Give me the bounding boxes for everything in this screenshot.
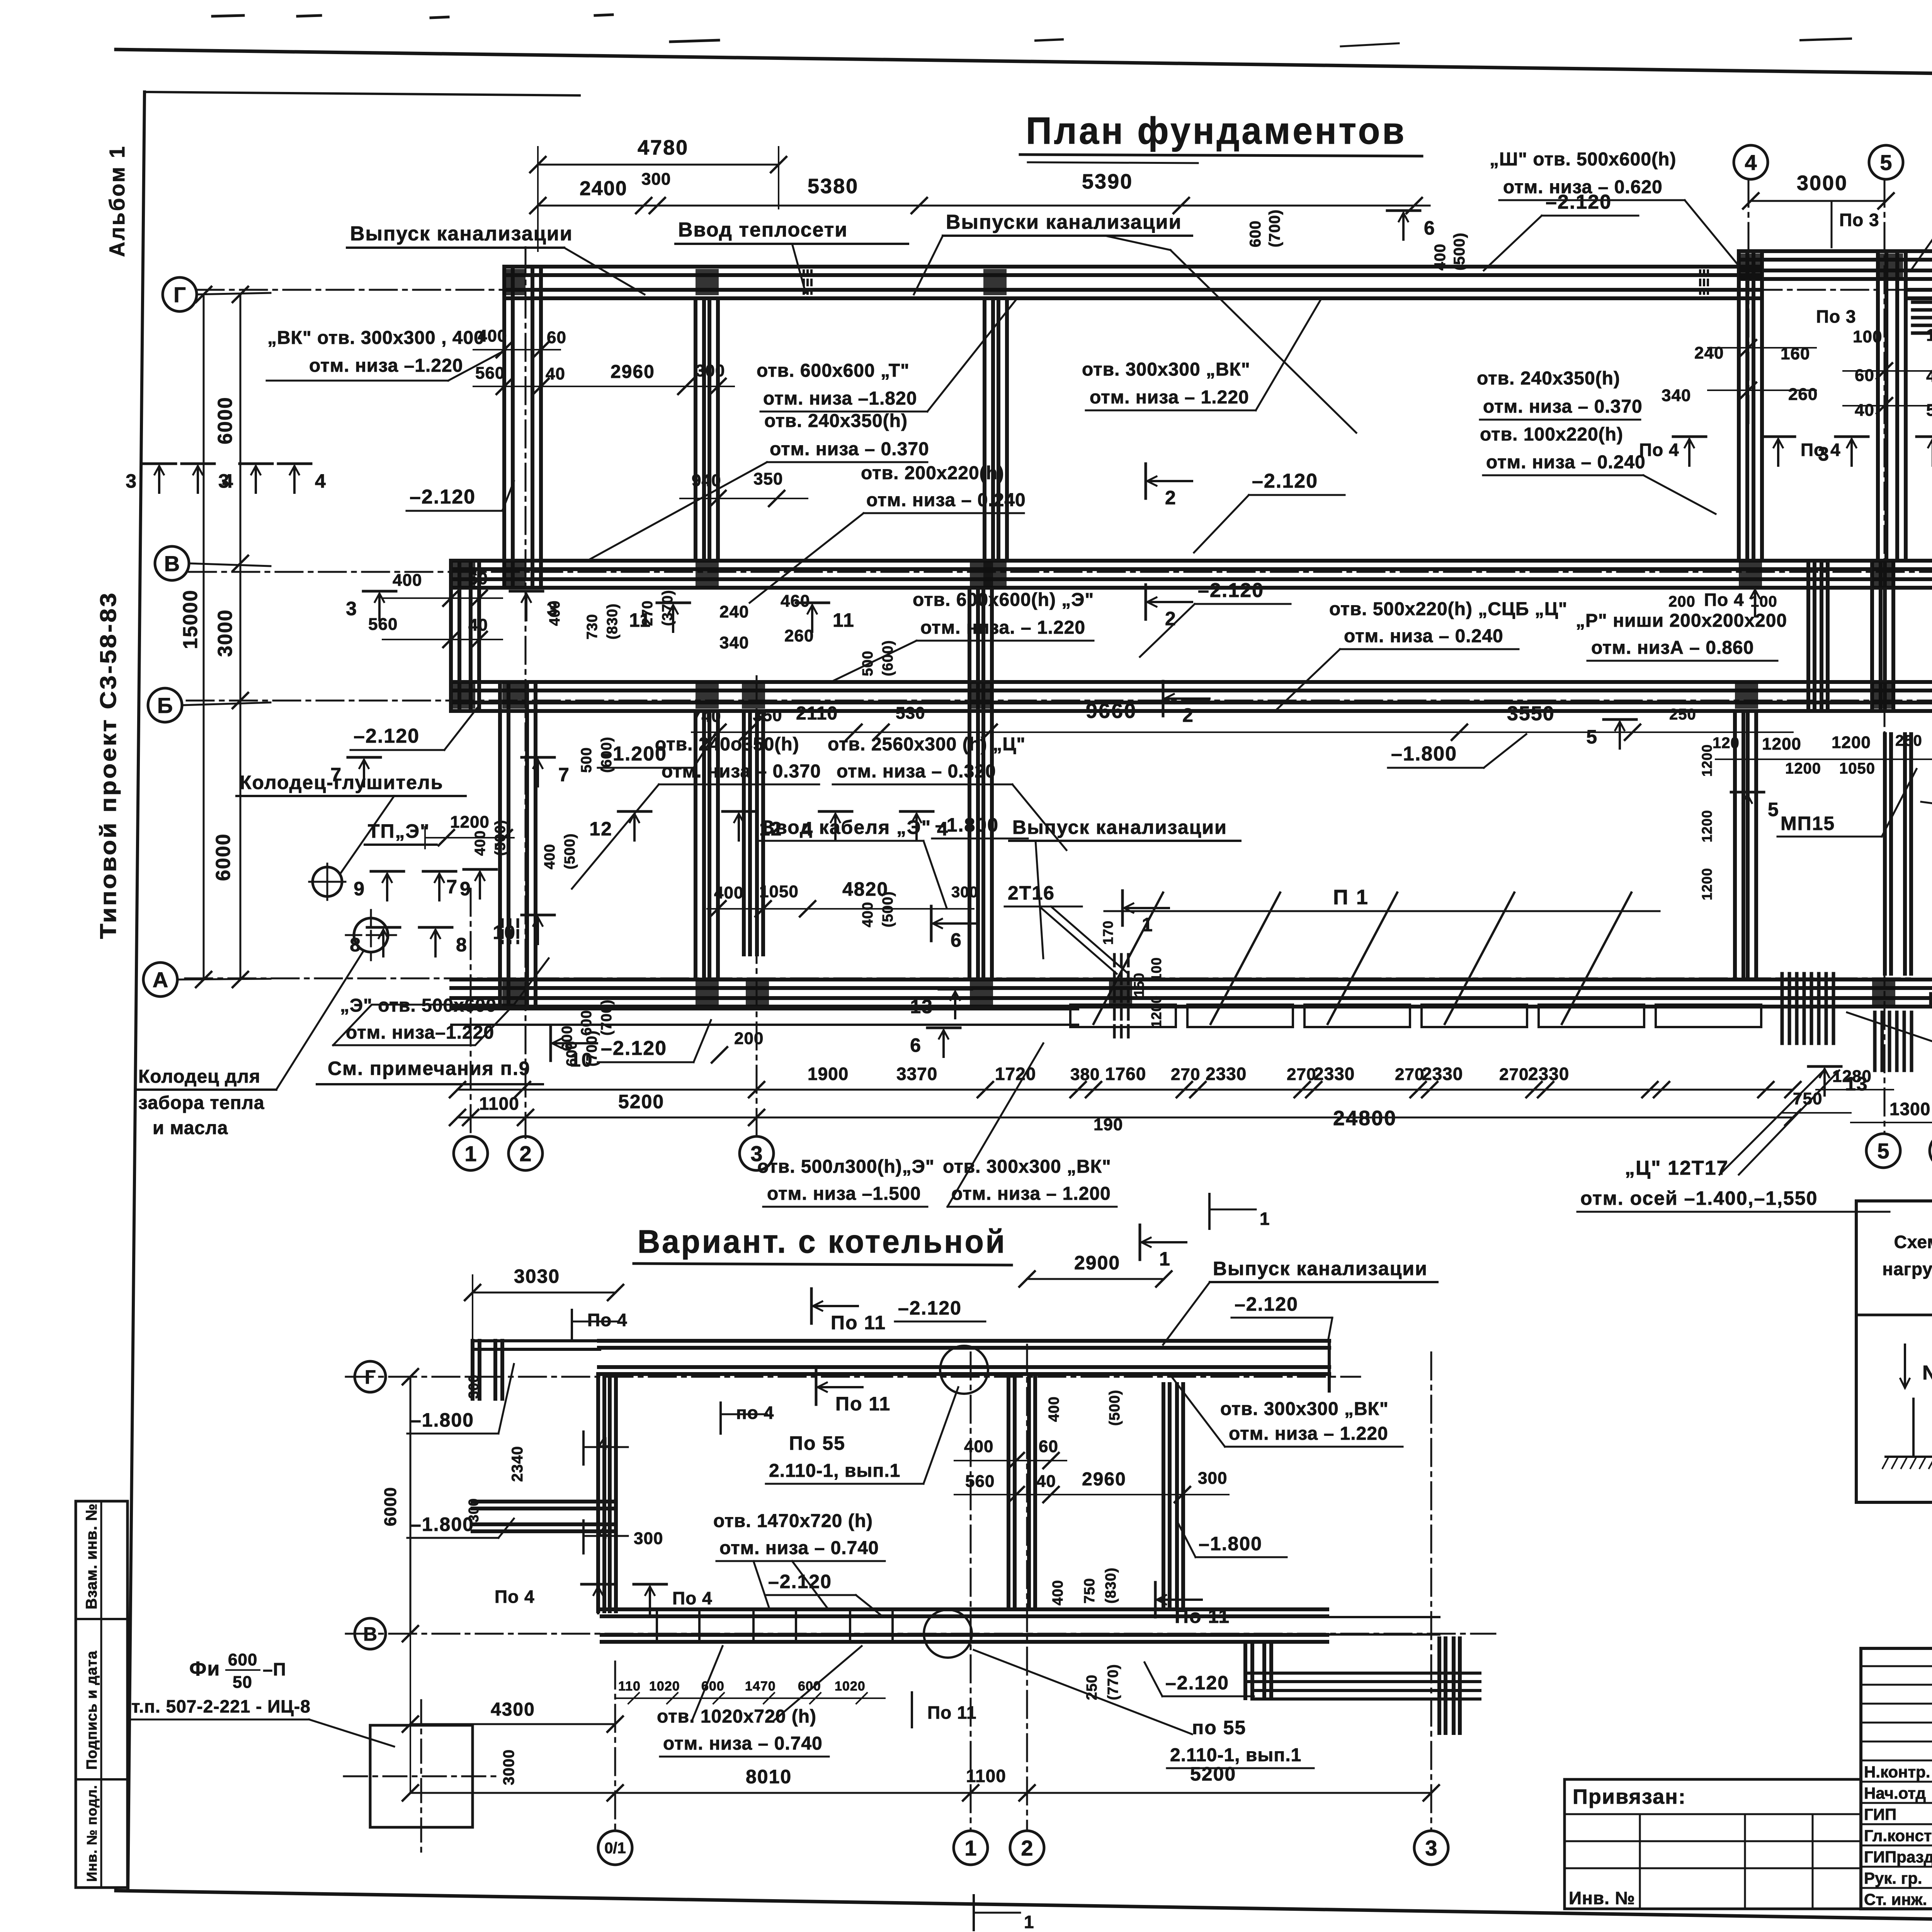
dimension 3000 top right	[1751, 200, 1886, 202]
svg-text:24800: 24800	[1333, 1107, 1397, 1130]
axis circle А left	[143, 963, 177, 997]
svg-text:(500): (500)	[562, 833, 578, 869]
svg-text:Н.контр.: Н.контр.	[1864, 1763, 1930, 1781]
svg-text:(830): (830)	[1103, 1567, 1119, 1604]
wall band axis Г top	[506, 265, 1762, 269]
svg-text:50: 50	[233, 1673, 252, 1692]
svg-text:–1.800: –1.800	[410, 1514, 474, 1535]
wall band axis А bottom	[451, 978, 1932, 981]
svg-text:Схема: Схема	[1894, 1232, 1932, 1252]
svg-text:„ВК" отв. 300х300 , 400: „ВК" отв. 300х300 , 400	[267, 328, 485, 348]
svg-text:3550: 3550	[1507, 702, 1555, 725]
П1 bracket line	[1104, 910, 1660, 912]
niche hatch right	[1873, 1012, 1877, 1070]
svg-text:300: 300	[696, 361, 725, 380]
svg-text:отм. низа–1.220: отм. низа–1.220	[346, 1022, 494, 1043]
svg-text:270: 270	[1395, 1065, 1424, 1084]
svg-text:т.п. 507-2-221 - ИЦ-8: т.п. 507-2-221 - ИЦ-8	[131, 1696, 311, 1716]
svg-text:2Т16: 2Т16	[1008, 882, 1055, 904]
svg-text:4: 4	[1745, 150, 1757, 175]
svg-text:6000: 6000	[381, 1487, 400, 1526]
wall left upper vertical	[502, 267, 506, 588]
wall left annex vertical	[449, 561, 453, 711]
svg-text:По 11: По 11	[831, 1312, 886, 1333]
svg-text:240: 240	[719, 602, 749, 621]
flag 10 lower	[549, 1026, 552, 1061]
wall right По4 room vertical	[1806, 561, 1810, 711]
variant wall left stub top	[471, 1341, 474, 1399]
svg-text:по 4: по 4	[736, 1403, 774, 1423]
svg-text:2900: 2900	[1074, 1252, 1120, 1274]
svg-text:отв. 500л300(h)„Э": отв. 500л300(h)„Э"	[757, 1156, 935, 1177]
variant axis 2	[1026, 1345, 1028, 1831]
wall МП15 room right vertical	[1883, 734, 1887, 974]
svg-text:12: 12	[589, 818, 612, 840]
svg-text:Г: Г	[173, 282, 186, 307]
main title underline	[1020, 155, 1422, 156]
svg-text:(700): (700)	[584, 1030, 600, 1066]
svg-text:300: 300	[466, 1498, 481, 1522]
svg-text:1050: 1050	[759, 882, 799, 901]
variant wall annex horizontal	[1245, 1672, 1480, 1675]
variant axis circle 1	[954, 1831, 988, 1865]
svg-text:3: 3	[1818, 443, 1830, 465]
svg-text:60: 60	[1855, 366, 1874, 385]
svg-text:По 4: По 4	[1639, 440, 1679, 460]
svg-text:отв. 300х300 „ВК": отв. 300х300 „ВК"	[1220, 1399, 1389, 1419]
svg-text:отм. низА – 0.860: отм. низА – 0.860	[1591, 638, 1754, 658]
svg-text:отм. осей –1.400,–1,550: отм. осей –1.400,–1,550	[1580, 1187, 1818, 1209]
svg-text:(700): (700)	[1266, 209, 1283, 247]
svg-text:нагрузки: нагрузки	[1882, 1259, 1932, 1279]
svg-text:1200: 1200	[450, 813, 490, 832]
flags 12 and 4 mid	[618, 810, 651, 813]
svg-text:3000: 3000	[500, 1749, 517, 1785]
svg-text:3: 3	[346, 598, 357, 619]
svg-text:400: 400	[964, 1437, 993, 1456]
svg-text:1200: 1200	[1699, 810, 1715, 842]
top border artifact dashes	[670, 40, 719, 42]
svg-text:–2.120: –2.120	[1198, 579, 1264, 602]
svg-text:11: 11	[833, 609, 855, 631]
bottom dim row main	[457, 1117, 1793, 1119]
svg-text:–1.800: –1.800	[935, 814, 999, 836]
variant flag По11 В	[1154, 1582, 1157, 1617]
variant axis circle Г	[355, 1361, 386, 1392]
wall top-right block right vertical	[1876, 251, 1880, 561]
svg-text:ГИПразд.: ГИПразд.	[1864, 1848, 1932, 1866]
variant axis 1	[970, 1352, 972, 1831]
svg-text:600: 600	[228, 1650, 257, 1669]
svg-text:отм. низа – 0.740: отм. низа – 0.740	[719, 1538, 879, 1558]
svg-text:отв. 2560х300 (h) „Ц": отв. 2560х300 (h) „Ц"	[828, 734, 1026, 755]
svg-text:Ввод теплосети: Ввод теплосети	[678, 219, 848, 241]
svg-text:Б: Б	[157, 693, 173, 718]
svg-text:отм. низа – 0.740: отм. низа – 0.740	[663, 1733, 823, 1754]
svg-text:2: 2	[1182, 704, 1194, 726]
svg-text:По 3: По 3	[1816, 306, 1856, 327]
svg-text:Гл.констр: Гл.констр	[1864, 1827, 1932, 1845]
svg-text:0/1: 0/1	[604, 1840, 626, 1857]
svg-text:отм. низа – 1.220: отм. низа – 1.220	[1229, 1423, 1388, 1444]
section flag 1 bottom	[1139, 1225, 1141, 1260]
svg-text:4: 4	[598, 1434, 609, 1454]
svg-text:–2.120: –2.120	[1252, 470, 1318, 492]
frame left border	[128, 92, 145, 1891]
svg-text:270: 270	[1287, 1065, 1316, 1084]
variant axis Г	[346, 1376, 1360, 1378]
opening dashes bottom left	[501, 920, 504, 943]
wall top-right block left vertical	[1737, 251, 1741, 561]
svg-text:(500): (500)	[1451, 233, 1468, 270]
svg-text:13: 13	[910, 996, 933, 1017]
svg-text:400: 400	[1050, 1580, 1066, 1605]
svg-text:Типовой проект С3-58-83: Типовой проект С3-58-83	[96, 591, 121, 939]
wall band axis В	[451, 559, 1932, 563]
variant axis circle 3	[1414, 1831, 1448, 1865]
svg-text:Инв. № подл.: Инв. № подл.	[84, 1785, 100, 1882]
left dimension line 15000	[203, 294, 205, 980]
svg-text:40: 40	[546, 364, 565, 383]
svg-text:4: 4	[222, 470, 234, 492]
svg-text:(700): (700)	[599, 999, 615, 1036]
svg-text:8010: 8010	[746, 1766, 792, 1787]
svg-text:План фундаментов: План фундаментов	[1026, 109, 1406, 152]
svg-text:отв. 200х220(h): отв. 200х220(h)	[861, 463, 1004, 483]
svg-text:1: 1	[1142, 914, 1153, 935]
svg-text:7: 7	[446, 876, 458, 898]
svg-text:250: 250	[1669, 706, 1696, 723]
wall interior vertical 1 lower	[694, 711, 697, 980]
section flag 6 top	[1387, 209, 1420, 212]
variant wall band Г	[599, 1339, 1329, 1343]
axis circle 2 bottom	[509, 1136, 543, 1170]
svg-text:отв. 300х300 „ВК": отв. 300х300 „ВК"	[1082, 359, 1250, 380]
svg-text:–П: –П	[263, 1659, 286, 1679]
svg-text:1: 1	[464, 1141, 476, 1166]
svg-text:1: 1	[1159, 1248, 1171, 1270]
svg-text:60: 60	[547, 328, 566, 347]
dim row below Б 740-350-2110-530-9660-3550	[692, 731, 1793, 733]
axis line Г horizontal	[197, 289, 1932, 291]
svg-text:–2.120: –2.120	[410, 486, 476, 508]
svg-text:МП15: МП15	[1781, 813, 1835, 834]
svg-text:По 4: По 4	[1704, 590, 1744, 610]
variant flag По11 second	[815, 1370, 818, 1405]
svg-text:Подпись и дата: Подпись и дата	[84, 1651, 100, 1770]
bottom dim row small	[457, 1089, 1793, 1091]
dimension row 2400-300-5380-5390	[538, 205, 1430, 207]
svg-text:В: В	[164, 551, 180, 576]
svg-text:100: 100	[1853, 327, 1882, 346]
svg-text:Рук. гр.: Рук. гр.	[1864, 1869, 1922, 1887]
svg-text:(830): (830)	[604, 603, 621, 639]
svg-text:400: 400	[714, 883, 743, 902]
svg-text:1280: 1280	[1832, 1067, 1872, 1086]
svg-text:отв. 1020х720 (h): отв. 1020х720 (h)	[657, 1706, 816, 1727]
left dimension line 6000-3000-6000	[240, 294, 241, 980]
svg-text:2400: 2400	[580, 177, 628, 200]
svg-text:Взам. инв. №: Взам. инв. №	[83, 1503, 100, 1609]
flags 7 left	[348, 756, 381, 759]
scan specks above border	[213, 15, 243, 16]
svg-text:(770): (770)	[1105, 1664, 1121, 1700]
svg-text:1760: 1760	[1105, 1064, 1146, 1084]
svg-text:По 3: По 3	[1839, 210, 1879, 230]
section flag 1 mid	[1121, 891, 1124, 925]
svg-text:1470: 1470	[745, 1679, 776, 1694]
svg-text:1: 1	[964, 1836, 976, 1860]
variant wall vertical to В	[596, 1374, 600, 1611]
svg-text:400: 400	[1432, 243, 1449, 270]
ledge lines under axis А band	[451, 1008, 1078, 1010]
svg-text:4: 4	[315, 470, 327, 492]
sheet top border	[116, 49, 1932, 84]
svg-text:отм. низа – 0.240: отм. низа – 0.240	[1486, 452, 1646, 473]
variant wall axis3 vertical	[1437, 1638, 1441, 1733]
svg-text:3: 3	[126, 470, 137, 492]
svg-text:П 1: П 1	[1333, 886, 1369, 909]
svg-text:460: 460	[781, 592, 810, 611]
svg-text:340: 340	[719, 633, 749, 652]
svg-text:отм. низа –1.500: отм. низа –1.500	[767, 1184, 921, 1204]
svg-text:отм. низа – 0.240: отм. низа – 0.240	[1344, 626, 1503, 646]
svg-text:530: 530	[896, 704, 925, 723]
flag По4 right upper2	[1762, 435, 1795, 438]
svg-text:отм. низа. – 1.220: отм. низа. – 1.220	[920, 617, 1085, 638]
axis line 1 vertical	[470, 889, 472, 1138]
svg-text:N: N	[1922, 1362, 1932, 1384]
svg-text:10: 10	[493, 922, 516, 943]
axis circle 6 bottom	[1930, 1134, 1932, 1168]
svg-text:отм. низа – 0.240: отм. низа – 0.240	[866, 490, 1026, 510]
svg-text:4780: 4780	[638, 136, 689, 159]
svg-text:1200: 1200	[1148, 995, 1164, 1028]
section flag 2 mid	[1145, 585, 1147, 619]
top right ticks	[1708, 347, 1816, 349]
axis line 5 vertical	[1884, 180, 1886, 1134]
svg-text:Ниши 200х200х200 „Р": Ниши 200х200х200 „Р"	[1928, 988, 1932, 1009]
svg-text:По 4: По 4	[587, 1310, 628, 1330]
staircase hatch	[1781, 974, 1784, 1043]
wall МП15 room left vertical	[1733, 711, 1737, 980]
svg-text:В: В	[363, 1623, 377, 1645]
svg-text:11: 11	[629, 609, 651, 631]
svg-text:Колодец-глушитель: Колодец-глушитель	[240, 772, 443, 793]
svg-text:5390: 5390	[1082, 170, 1133, 193]
svg-text:15000: 15000	[179, 589, 202, 649]
svg-text:по 55: по 55	[1192, 1717, 1246, 1738]
variant dim 2900	[1027, 1278, 1164, 1280]
axis line В horizontal	[189, 571, 1932, 573]
svg-text:6: 6	[910, 1034, 922, 1056]
svg-text:ТП„Э": ТП„Э"	[368, 820, 430, 842]
svg-text:2: 2	[1165, 487, 1177, 509]
svg-text:1200: 1200	[1762, 735, 1801, 753]
svg-text:5: 5	[1877, 1139, 1889, 1163]
svg-text:6000: 6000	[212, 833, 235, 881]
axis Б connector left	[182, 702, 270, 705]
svg-text:300: 300	[1198, 1469, 1227, 1488]
manhole МК circle 1	[313, 867, 342, 896]
variant detached square	[370, 1725, 473, 1827]
svg-text:„Ц" 12Т17: „Ц" 12Т17	[1625, 1157, 1729, 1179]
wall stub top-right corner	[1906, 269, 1932, 272]
axis В connector left	[189, 563, 270, 566]
svg-text:300: 300	[641, 170, 671, 189]
svg-text:300: 300	[466, 1374, 481, 1399]
svg-text:–2.120: –2.120	[601, 1037, 667, 1060]
svg-text:4820: 4820	[842, 878, 888, 900]
svg-text:отм. низа – 0.370: отм. низа – 0.370	[662, 761, 821, 782]
svg-text:По 55: По 55	[789, 1432, 845, 1454]
svg-text:1020: 1020	[649, 1679, 680, 1694]
svg-text:5200: 5200	[1190, 1763, 1236, 1785]
svg-text:–1.800: –1.800	[1199, 1533, 1262, 1554]
svg-text:1100: 1100	[479, 1094, 519, 1114]
title block appendix left box	[1565, 1779, 1861, 1909]
svg-text:2110: 2110	[796, 703, 838, 724]
svg-text:600: 600	[559, 1026, 575, 1051]
svg-text:940: 940	[692, 471, 721, 490]
variant По55 detail circle top	[940, 1346, 988, 1394]
variant wall annex vertical	[1243, 1642, 1247, 1698]
axis А connector left	[177, 979, 270, 980]
svg-text:ГИП: ГИП	[1864, 1805, 1896, 1823]
svg-text:600: 600	[798, 1679, 821, 1694]
svg-text:7: 7	[558, 764, 570, 786]
svg-text:Выпуск канализации: Выпуск канализации	[350, 223, 573, 245]
svg-text:350: 350	[753, 706, 782, 725]
svg-text:отв. 100х220(h): отв. 100х220(h)	[1480, 424, 1623, 445]
section flag 13	[939, 988, 972, 991]
variant axis 3	[1430, 1352, 1432, 1831]
svg-text:2.110-1, вып.1: 2.110-1, вып.1	[1170, 1745, 1301, 1765]
svg-text:260: 260	[784, 626, 814, 645]
svg-text:2330: 2330	[1422, 1064, 1463, 1084]
svg-text:380: 380	[1070, 1065, 1100, 1084]
svg-text:100: 100	[1148, 957, 1164, 981]
svg-text:отв. 600х600 „Т": отв. 600х600 „Т"	[757, 361, 910, 381]
svg-text:240: 240	[1694, 344, 1724, 362]
variant band extensions right	[1327, 1616, 1439, 1618]
svg-text:5: 5	[1880, 150, 1892, 175]
svg-text:270: 270	[1171, 1065, 1200, 1084]
axis line 3 vertical	[756, 676, 758, 1138]
flag 10	[522, 914, 554, 917]
axis circle 3 bottom	[740, 1136, 774, 1170]
flags 3-11 below В	[363, 590, 396, 593]
svg-text:600: 600	[1247, 220, 1264, 247]
svg-text:3370: 3370	[896, 1064, 937, 1084]
flags 3 right upper	[1835, 435, 1868, 438]
svg-text:1020: 1020	[835, 1679, 866, 1694]
table schema sketch	[1904, 1345, 1906, 1387]
svg-text:500: 500	[578, 747, 595, 773]
svg-text:По 11: По 11	[927, 1702, 977, 1723]
svg-text:2: 2	[1021, 1836, 1033, 1860]
svg-text:250: 250	[1895, 732, 1922, 749]
variant wall interior vertical	[1007, 1374, 1010, 1609]
wall band axis Д top-right block	[1739, 249, 1932, 253]
axis line 4 vertical	[1748, 180, 1750, 425]
svg-text:См. примечания п.9: См. примечания п.9	[328, 1058, 531, 1079]
svg-text:190: 190	[1094, 1115, 1123, 1134]
svg-text:2: 2	[519, 1141, 531, 1166]
svg-text:Колодец для: Колодец для	[138, 1066, 260, 1087]
variant wall band В	[602, 1607, 1327, 1611]
svg-text:5: 5	[1768, 799, 1779, 820]
wall left lower vertical	[498, 682, 502, 1007]
svg-text:–2.120: –2.120	[1235, 1293, 1298, 1315]
table header divider	[1856, 1314, 1932, 1316]
svg-text:110: 110	[618, 1679, 641, 1694]
svg-text:Фи: Фи	[189, 1658, 220, 1680]
variant axis В	[346, 1633, 1495, 1635]
svg-text:5: 5	[1586, 726, 1598, 748]
room1 dim 400-60	[473, 349, 560, 350]
svg-text:6: 6	[1424, 217, 1435, 239]
svg-text:2.110-1, вып.1: 2.110-1, вып.1	[769, 1461, 900, 1481]
title block outer	[1861, 1648, 1932, 1909]
variant wall left mid stub	[473, 1500, 616, 1503]
svg-text:400: 400	[542, 844, 558, 869]
axis line А horizontal	[185, 978, 1913, 980]
svg-text:560: 560	[475, 364, 505, 383]
svg-text:1100: 1100	[966, 1766, 1006, 1786]
svg-text:отм. низа –1.220: отм. низа –1.220	[309, 355, 463, 376]
svg-text:отм. низа – 1.220: отм. низа – 1.220	[1090, 387, 1249, 408]
section flag 2 top	[1145, 464, 1147, 498]
svg-text:40: 40	[1036, 1472, 1056, 1491]
svg-text:1200: 1200	[1785, 760, 1821, 777]
svg-text:120: 120	[1713, 735, 1740, 752]
svg-text:2330: 2330	[1206, 1064, 1247, 1084]
variant wall right room vertical	[1162, 1384, 1165, 1609]
svg-text:2960: 2960	[1082, 1469, 1126, 1490]
svg-text:400: 400	[1046, 1396, 1062, 1422]
svg-text:100: 100	[1750, 593, 1777, 610]
svg-text:отв. 300х300 „ВК": отв. 300х300 „ВК"	[943, 1156, 1111, 1177]
svg-text:40: 40	[468, 616, 488, 634]
svg-text:отв. 600х600(h) „Э": отв. 600х600(h) „Э"	[913, 590, 1094, 610]
svg-text:260: 260	[1788, 385, 1818, 404]
frame top-left corner line	[145, 92, 580, 95]
water inlet hatch ВВод водопровода	[1913, 301, 1932, 304]
pier lintels П1 row	[1070, 1005, 1176, 1027]
opening marks on top band	[803, 270, 805, 294]
room1 dim 560-40-2960-300	[473, 386, 734, 387]
svg-text:2960: 2960	[611, 362, 655, 382]
svg-text:отм. низа – 0.620: отм. низа – 0.620	[1503, 177, 1663, 197]
svg-text:270: 270	[1499, 1065, 1529, 1084]
svg-text:–2.120: –2.120	[1165, 1672, 1229, 1694]
variant flag По11 top	[810, 1289, 813, 1323]
svg-text:2330: 2330	[1528, 1064, 1569, 1084]
wall interior vertical 2 upper	[983, 298, 986, 561]
svg-text:730: 730	[584, 614, 600, 639]
svg-text:Инв. №: Инв. №	[1569, 1888, 1635, 1908]
svg-text:170: 170	[1100, 920, 1116, 945]
svg-text:400: 400	[393, 571, 422, 590]
svg-text:–1.800: –1.800	[1391, 743, 1457, 765]
sheet bottom border	[116, 1891, 1932, 1932]
axis Г connector left	[197, 293, 270, 294]
left strip stamp boxes	[76, 1501, 128, 1888]
svg-text:560: 560	[965, 1472, 995, 1491]
svg-text:3030: 3030	[514, 1265, 560, 1287]
wall interior vertical 3 lower	[968, 588, 971, 980]
